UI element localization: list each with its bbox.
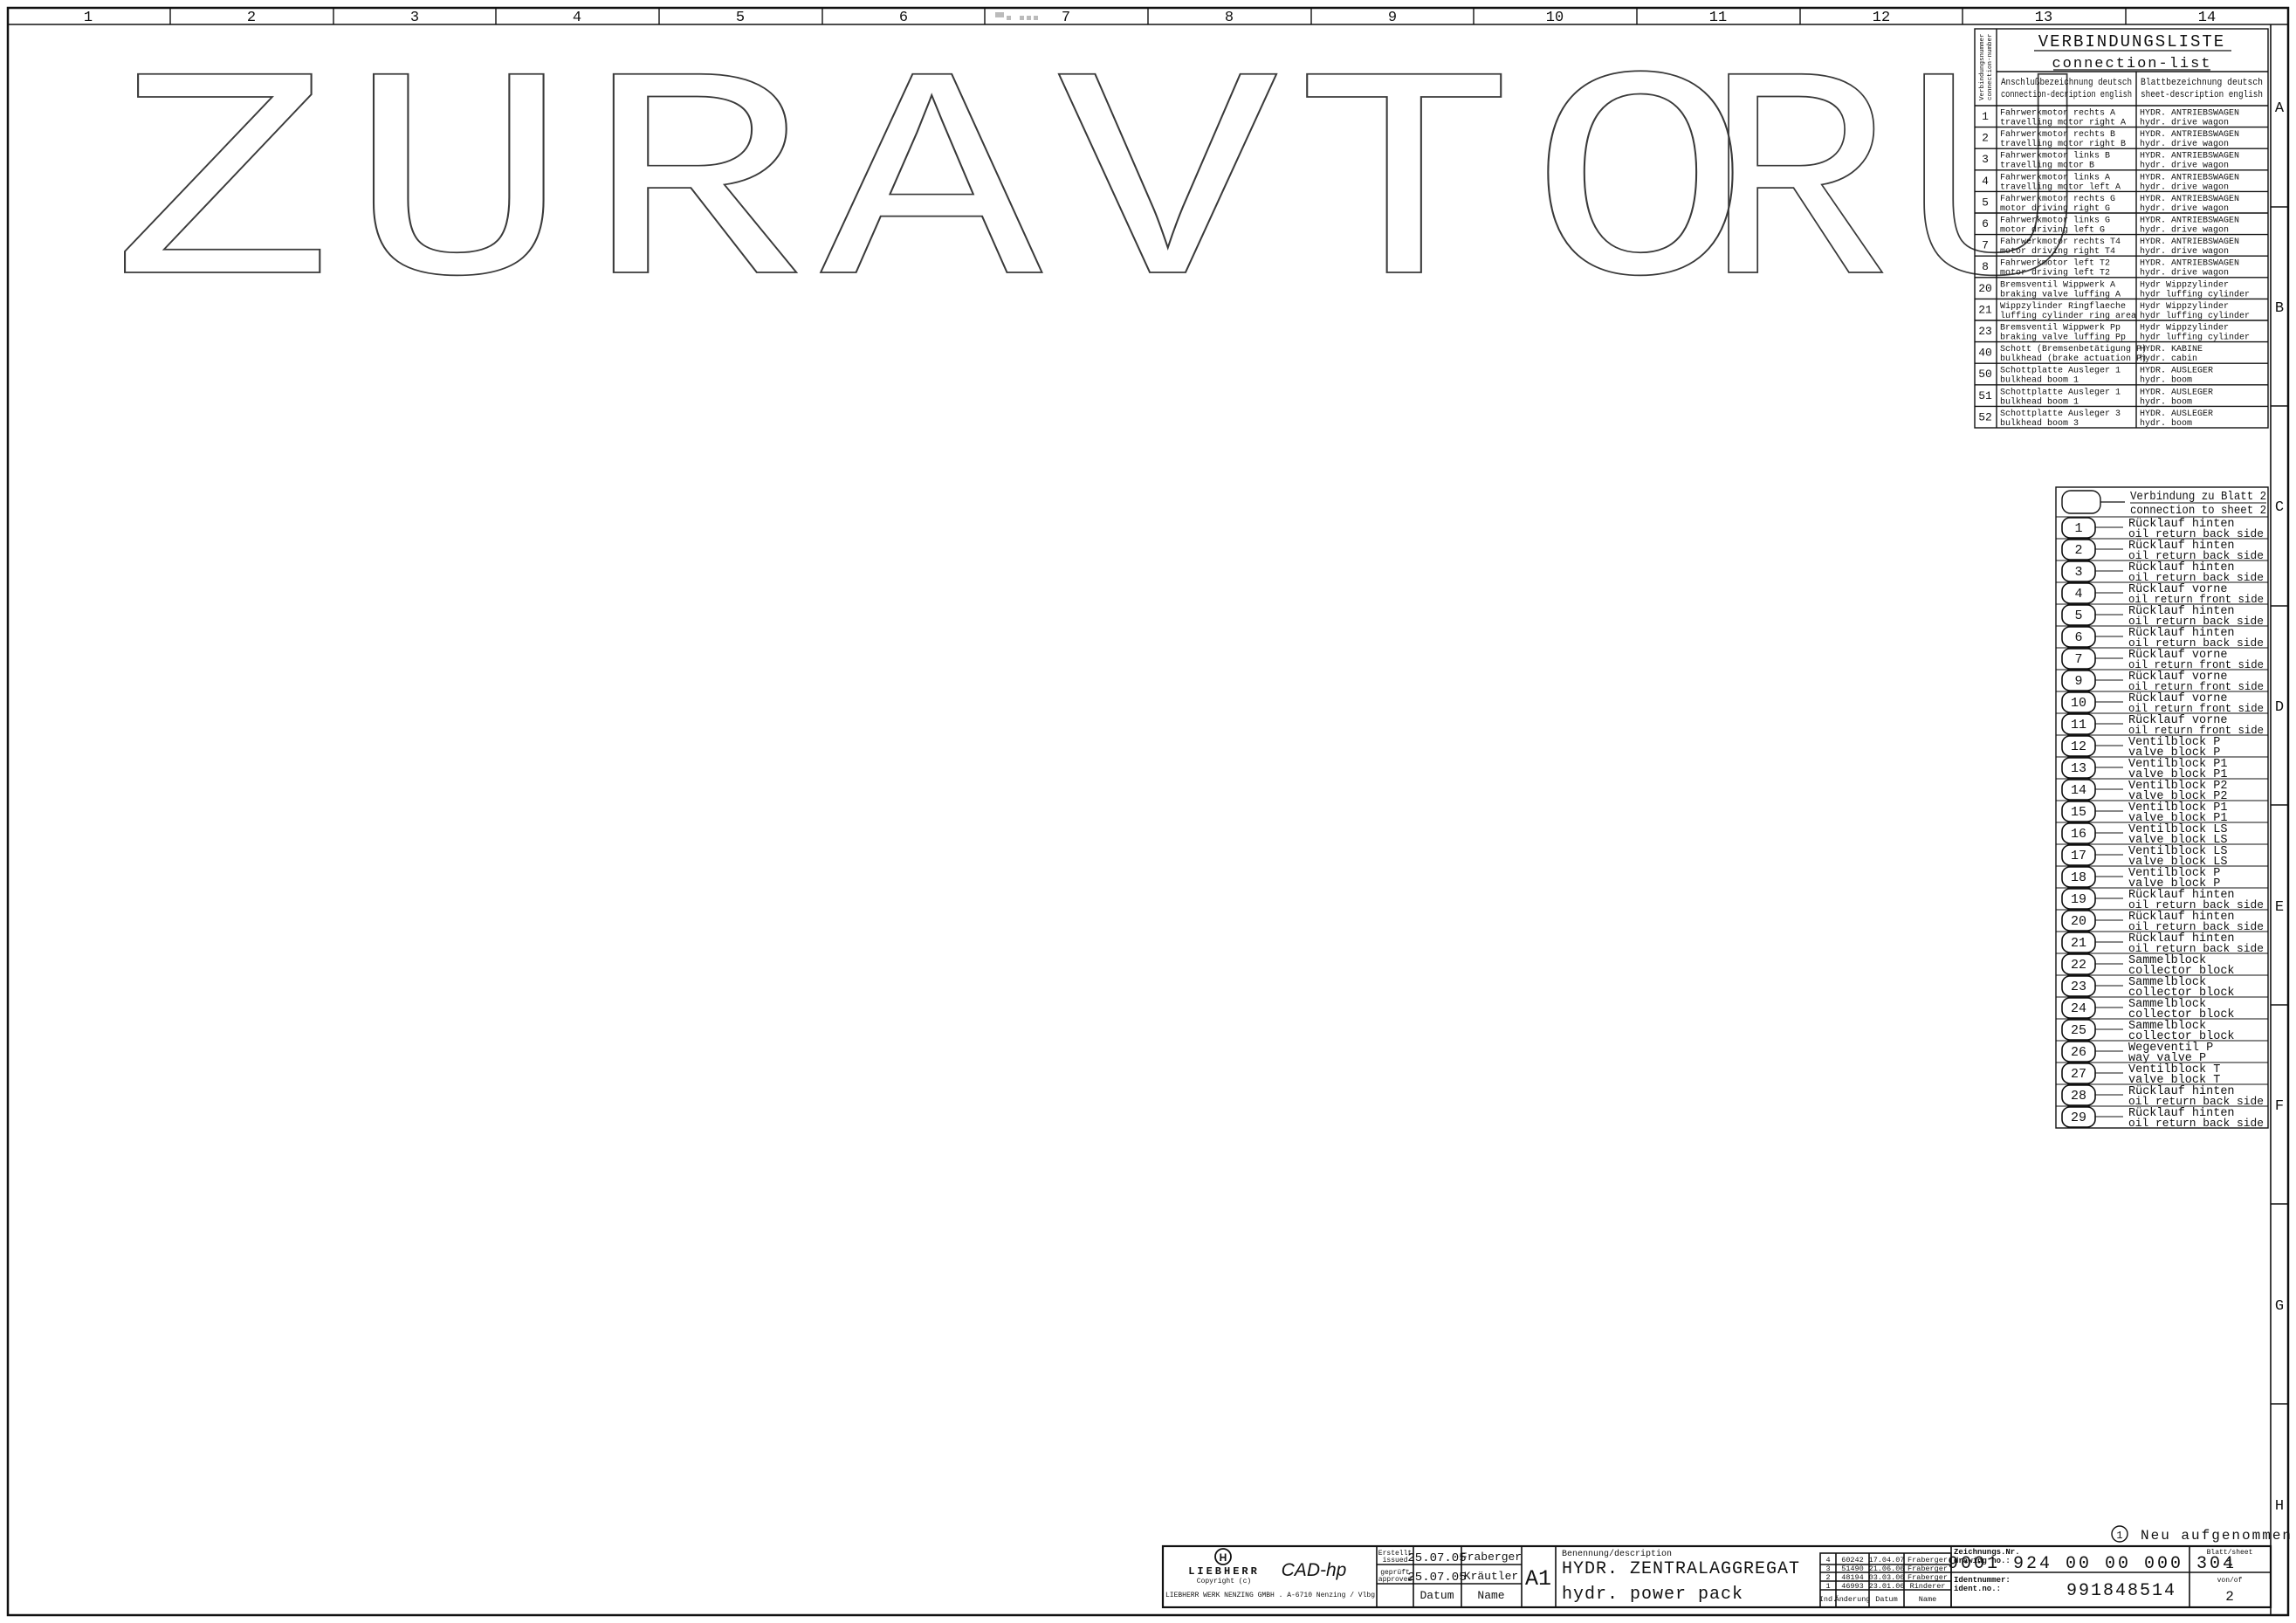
right row-letter ticks and letters xyxy=(2271,207,2288,1404)
right letter band line xyxy=(2270,24,2272,1615)
svg-text:Identnummer:: Identnummer: xyxy=(1954,1576,2011,1585)
svg-text:VERBINDUNGSLISTE: VERBINDUNGSLISTE xyxy=(2038,32,2225,52)
svg-text:1: 1 xyxy=(1982,110,1989,123)
svg-text:bulkhead boom 1: bulkhead boom 1 xyxy=(2000,375,2079,386)
svg-text:52: 52 xyxy=(1978,410,1992,423)
svg-text:hydr. cabin: hydr. cabin xyxy=(2140,354,2197,364)
svg-text:hydr luffing cylinder: hydr luffing cylinder xyxy=(2140,333,2250,343)
svg-text:LIEBHERR WERK NENZING GMBH . A: LIEBHERR WERK NENZING GMBH . A-6710 Nenz… xyxy=(1165,1592,1375,1599)
table VERBINDUNGSLISTE connection-list xyxy=(1975,29,2268,429)
svg-text:Fahrwerkmotor rechts G: Fahrwerkmotor rechts G xyxy=(2000,194,2115,204)
svg-text:Name: Name xyxy=(1919,1595,1936,1604)
svg-text:ZURAVTO: ZURAVTO xyxy=(112,22,1766,363)
svg-text:HYDR. ANTRIEBSWAGEN: HYDR. ANTRIEBSWAGEN xyxy=(2140,109,2239,119)
svg-text:2: 2 xyxy=(1825,1573,1830,1582)
svg-text:Änderung: Änderung xyxy=(1835,1595,1871,1604)
svg-text:hydr. boom: hydr. boom xyxy=(2140,418,2192,429)
svg-text:1: 1 xyxy=(2116,1530,2122,1542)
svg-text:Blattbezeichnung deutsch: Blattbezeichnung deutsch xyxy=(2141,78,2263,88)
svg-text:25.07.05: 25.07.05 xyxy=(1407,1571,1466,1585)
svg-text:6: 6 xyxy=(1982,217,1989,230)
svg-text:28: 28 xyxy=(2071,1089,2086,1104)
svg-text:4: 4 xyxy=(2074,587,2082,602)
svg-text:991848514: 991848514 xyxy=(2066,1581,2176,1601)
svg-text:21.06.06: 21.06.06 xyxy=(1869,1565,1905,1573)
svg-text:connection-decription english: connection-decription english xyxy=(2001,90,2132,100)
svg-text:hydr luffing cylinder: hydr luffing cylinder xyxy=(2140,311,2250,321)
svg-text:H: H xyxy=(1220,1551,1227,1564)
svg-text:19: 19 xyxy=(2071,892,2086,907)
svg-text:hydr. power pack: hydr. power pack xyxy=(1562,1585,1743,1605)
svg-text:C: C xyxy=(2275,499,2284,516)
svg-text:Datum: Datum xyxy=(1420,1589,1454,1602)
svg-text:issued: issued xyxy=(1383,1557,1408,1565)
svg-text:Fahrwerkmotor left T2: Fahrwerkmotor left T2 xyxy=(2000,258,2110,269)
svg-text:2: 2 xyxy=(2225,1589,2234,1605)
svg-text:HYDR. ANTRIEBSWAGEN: HYDR. ANTRIEBSWAGEN xyxy=(2140,130,2239,140)
tiny plot marks near col 7/8 xyxy=(995,12,1038,20)
svg-text:Benennung/description: Benennung/description xyxy=(1562,1549,1672,1559)
svg-text:motor driving left G: motor driving left G xyxy=(2000,225,2105,236)
svg-text:9: 9 xyxy=(2074,674,2082,689)
svg-text:Schottplatte Ausleger 3: Schottplatte Ausleger 3 xyxy=(2000,409,2121,419)
svg-text:HYDR. ZENTRALAGGREGAT: HYDR. ZENTRALAGGREGAT xyxy=(1562,1559,1800,1579)
svg-text:Hydr Wippzylinder: Hydr Wippzylinder xyxy=(2140,279,2229,290)
svg-text:HYDR. ANTRIEBSWAGEN: HYDR. ANTRIEBSWAGEN xyxy=(2140,259,2239,269)
svg-text:Fraberger: Fraberger xyxy=(1908,1573,1948,1582)
svg-text:oil return back side: oil return back side xyxy=(2128,1117,2264,1130)
svg-text:travelling motor B: travelling motor B xyxy=(2000,161,2094,171)
svg-text:Name: Name xyxy=(1477,1589,1504,1602)
svg-text:H: H xyxy=(2275,1498,2284,1515)
svg-text:braking valve luffing A: braking valve luffing A xyxy=(2000,289,2121,299)
svg-text:60242: 60242 xyxy=(1841,1556,1864,1565)
svg-text:CAD-hp: CAD-hp xyxy=(1282,1560,1347,1580)
svg-text:Bremsventil Wippwerk Pp: Bremsventil Wippwerk Pp xyxy=(2000,323,2121,334)
svg-text:48194: 48194 xyxy=(1841,1573,1864,1582)
svg-text:sheet-description english: sheet-description english xyxy=(2141,90,2263,100)
svg-text:HYDR. ANTRIEBSWAGEN: HYDR. ANTRIEBSWAGEN xyxy=(2140,237,2239,247)
svg-text:Anschlußbezeichnung deutsch: Anschlußbezeichnung deutsch xyxy=(2001,78,2132,88)
svg-text:18: 18 xyxy=(2071,870,2086,885)
svg-text:03.03.06: 03.03.06 xyxy=(1869,1573,1905,1582)
svg-text:22: 22 xyxy=(2071,958,2086,973)
svg-text:Neu aufgenommen !: Neu aufgenommen ! xyxy=(2141,1528,2296,1544)
svg-text:Fahrwerkmotor links G: Fahrwerkmotor links G xyxy=(2000,216,2110,226)
svg-text:motor driving right G: motor driving right G xyxy=(2000,203,2110,214)
svg-text:connection to sheet 2: connection to sheet 2 xyxy=(2130,504,2266,518)
svg-text:4: 4 xyxy=(1825,1556,1830,1565)
svg-text:hydr. drive wagon: hydr. drive wagon xyxy=(2140,203,2229,214)
svg-text:hydr. drive wagon: hydr. drive wagon xyxy=(2140,225,2229,236)
svg-text:8: 8 xyxy=(1982,260,1989,273)
svg-text:A1: A1 xyxy=(1525,1566,1551,1592)
svg-text:D: D xyxy=(2275,699,2284,716)
svg-text:Fraberger: Fraberger xyxy=(1908,1565,1948,1573)
svg-text:23: 23 xyxy=(1978,325,1992,338)
svg-text:hydr. drive wagon: hydr. drive wagon xyxy=(2140,118,2229,128)
svg-text:24: 24 xyxy=(2071,1001,2086,1016)
svg-text:23.01.06: 23.01.06 xyxy=(1869,1582,1905,1591)
svg-text:E: E xyxy=(2275,899,2284,916)
svg-text:1: 1 xyxy=(84,10,93,26)
svg-text:Schottplatte Ausleger 1: Schottplatte Ausleger 1 xyxy=(2000,366,2121,376)
svg-text:Datum: Datum xyxy=(1875,1595,1898,1604)
ruler column ticks xyxy=(170,8,2126,24)
svg-text:HYDR. ANTRIEBSWAGEN: HYDR. ANTRIEBSWAGEN xyxy=(2140,173,2239,182)
svg-text:HYDR. KABINE: HYDR. KABINE xyxy=(2140,345,2203,354)
svg-text:bulkhead boom 1: bulkhead boom 1 xyxy=(2000,396,2079,407)
svg-text:Fraberger: Fraberger xyxy=(1461,1551,1522,1564)
svg-text:3: 3 xyxy=(2074,565,2082,580)
svg-text:6: 6 xyxy=(2074,630,2082,645)
svg-text:Fraberger: Fraberger xyxy=(1908,1556,1948,1565)
svg-text:17.04.07: 17.04.07 xyxy=(1869,1556,1905,1565)
svg-text:23: 23 xyxy=(2071,980,2086,994)
svg-text:HYDR. AUSLEGER: HYDR. AUSLEGER xyxy=(2140,409,2213,419)
svg-text:20: 20 xyxy=(2071,914,2086,929)
svg-text:46993: 46993 xyxy=(1841,1582,1864,1591)
svg-text:27: 27 xyxy=(2071,1067,2086,1082)
svg-text:Rinderer: Rinderer xyxy=(1910,1582,1946,1591)
svg-text:hydr. drive wagon: hydr. drive wagon xyxy=(2140,139,2229,149)
svg-text:21: 21 xyxy=(2071,936,2086,951)
svg-text:hydr. drive wagon: hydr. drive wagon xyxy=(2140,182,2229,192)
svg-text:hydr. drive wagon: hydr. drive wagon xyxy=(2140,161,2229,171)
svg-text:HYDR. ANTRIEBSWAGEN: HYDR. ANTRIEBSWAGEN xyxy=(2140,152,2239,162)
svg-text:2: 2 xyxy=(2074,543,2082,558)
svg-text:16: 16 xyxy=(2071,827,2086,842)
svg-text:50: 50 xyxy=(1978,368,1992,381)
svg-text:Bremsventil Wippwerk A: Bremsventil Wippwerk A xyxy=(2000,279,2115,290)
svg-text:3: 3 xyxy=(1982,153,1989,166)
svg-text:hydr luffing cylinder: hydr luffing cylinder xyxy=(2140,289,2250,299)
svg-text:hydr. boom: hydr. boom xyxy=(2140,396,2192,407)
svg-text:Kräutler: Kräutler xyxy=(1464,1570,1518,1583)
svg-text:Verbindung zu Blatt 2: Verbindung zu Blatt 2 xyxy=(2130,490,2266,504)
svg-text:bulkhead (brake actuation P): bulkhead (brake actuation P) xyxy=(2000,354,2147,364)
svg-text:Fahrwerkmotor rechts B: Fahrwerkmotor rechts B xyxy=(2000,129,2115,140)
svg-text:11: 11 xyxy=(2071,718,2086,732)
svg-text:Schottplatte Ausleger 1: Schottplatte Ausleger 1 xyxy=(2000,387,2121,397)
svg-text:1: 1 xyxy=(1825,1582,1830,1591)
svg-text:Fahrwerkmotor rechts A: Fahrwerkmotor rechts A xyxy=(2000,108,2115,119)
svg-text:Fahrwerkmotor links B: Fahrwerkmotor links B xyxy=(2000,151,2110,162)
ruler top line xyxy=(8,24,2288,25)
svg-text:40: 40 xyxy=(1978,347,1992,360)
title block xyxy=(1163,1526,2296,1607)
svg-text:21: 21 xyxy=(1978,303,1992,316)
svg-text:14: 14 xyxy=(2198,10,2216,26)
svg-text:Fahrwerkmotor links A: Fahrwerkmotor links A xyxy=(2000,172,2110,182)
svg-text:25.07.05: 25.07.05 xyxy=(1407,1551,1466,1565)
svg-text:15: 15 xyxy=(2071,805,2086,820)
svg-text:9001 924 00 00 000 304: 9001 924 00 00 000 304 xyxy=(1948,1554,2236,1574)
note Neu aufgenommen xyxy=(2112,1526,2296,1544)
svg-text:17: 17 xyxy=(2071,849,2086,863)
svg-text:Wippzylinder Ringflaeche: Wippzylinder Ringflaeche xyxy=(2000,301,2126,312)
svg-text:Fahrwerkmotor rechts T4: Fahrwerkmotor rechts T4 xyxy=(2000,237,2121,247)
svg-text:A: A xyxy=(2275,100,2285,117)
svg-text:Schott (Bremsenbetätigung P): Schott (Bremsenbetätigung P) xyxy=(2000,344,2147,354)
svg-text:travelling motor left A: travelling motor left A xyxy=(2000,182,2121,192)
svg-text:26: 26 xyxy=(2071,1045,2086,1060)
svg-text:hydr. drive wagon: hydr. drive wagon xyxy=(2140,246,2229,257)
svg-text:5: 5 xyxy=(1982,196,1989,209)
svg-text:7: 7 xyxy=(2074,652,2082,667)
svg-text:hydr. drive wagon: hydr. drive wagon xyxy=(2140,268,2229,279)
svg-text:F: F xyxy=(2275,1098,2284,1115)
svg-text:20: 20 xyxy=(1978,282,1992,295)
svg-text:bulkhead boom 3: bulkhead boom 3 xyxy=(2000,418,2079,429)
svg-text:4: 4 xyxy=(1982,175,1989,188)
svg-text:LIEBHERR: LIEBHERR xyxy=(1188,1565,1260,1578)
svg-text:HYDR. ANTRIEBSWAGEN: HYDR. ANTRIEBSWAGEN xyxy=(2140,217,2239,226)
svg-text:29: 29 xyxy=(2071,1111,2086,1125)
svg-text:HYDR. AUSLEGER: HYDR. AUSLEGER xyxy=(2140,367,2213,376)
svg-text:Blatt/sheet: Blatt/sheet xyxy=(2207,1549,2253,1557)
svg-text:B: B xyxy=(2275,300,2284,317)
svg-text:travelling motor right B: travelling motor right B xyxy=(2000,139,2126,149)
svg-text:3: 3 xyxy=(1825,1565,1830,1573)
svg-text:connection-number: connection-number xyxy=(1987,33,1994,100)
svg-text:G: G xyxy=(2275,1298,2284,1315)
svg-text:Verbindungsnummer: Verbindungsnummer xyxy=(1979,33,1986,100)
svg-text:2: 2 xyxy=(1982,132,1989,145)
svg-text:braking valve luffing Pp: braking valve luffing Pp xyxy=(2000,333,2126,343)
svg-text:luffing cylinder ring area: luffing cylinder ring area xyxy=(2000,311,2136,321)
svg-text:51490: 51490 xyxy=(1841,1565,1864,1573)
svg-text:motor driving right T4: motor driving right T4 xyxy=(2000,246,2115,257)
svg-text:5: 5 xyxy=(2074,609,2082,623)
svg-text:1: 1 xyxy=(2225,1557,2234,1572)
svg-text:12: 12 xyxy=(2071,739,2086,754)
ruler column numbers xyxy=(84,10,2216,26)
svg-text:HYDR. AUSLEGER: HYDR. AUSLEGER xyxy=(2140,388,2213,397)
svg-text:7: 7 xyxy=(1982,239,1989,252)
svg-text:14: 14 xyxy=(2071,783,2086,798)
legend Verbindung zu Blatt 2 connection to sheet 2 xyxy=(2056,487,2268,1130)
svg-text:motor driving left T2: motor driving left T2 xyxy=(2000,268,2110,279)
svg-text:51: 51 xyxy=(1978,389,1992,402)
svg-text:hydr. boom: hydr. boom xyxy=(2140,375,2192,386)
svg-text:von/of: von/of xyxy=(2217,1577,2243,1585)
svg-text:13: 13 xyxy=(2071,761,2086,776)
svg-text:travelling motor right A: travelling motor right A xyxy=(2000,118,2126,128)
svg-text:10: 10 xyxy=(2071,696,2086,711)
svg-text:Copyright (c): Copyright (c) xyxy=(1197,1578,1251,1585)
svg-text:ident.no.:: ident.no.: xyxy=(1954,1585,2001,1593)
svg-text:1: 1 xyxy=(2074,521,2082,536)
svg-text:HYDR. ANTRIEBSWAGEN: HYDR. ANTRIEBSWAGEN xyxy=(2140,195,2239,204)
watermark ZURAVTO RU outline letters xyxy=(112,22,2101,363)
svg-text:Hydr Wippzylinder: Hydr Wippzylinder xyxy=(2140,323,2229,334)
svg-text:Hydr Wippzylinder: Hydr Wippzylinder xyxy=(2140,301,2229,312)
svg-text:25: 25 xyxy=(2071,1023,2086,1038)
